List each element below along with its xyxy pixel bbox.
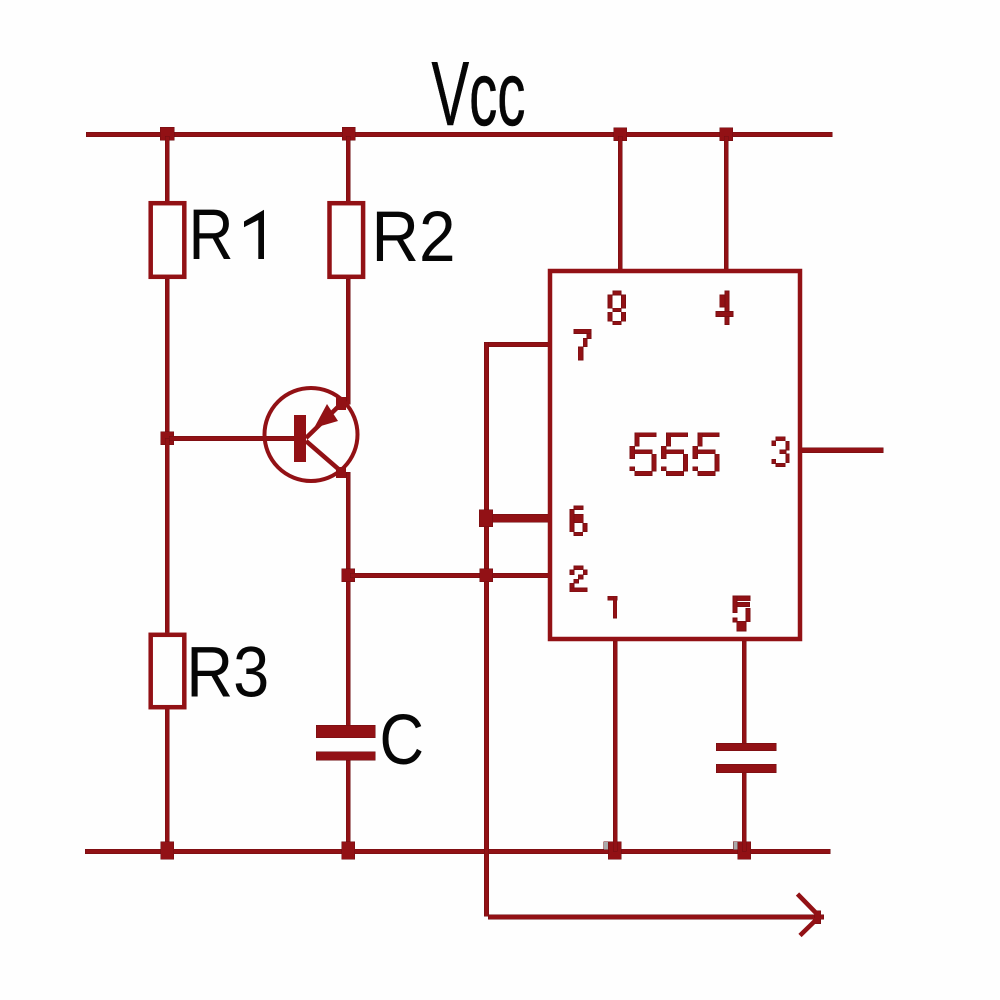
transistor Q1 emitter connection block [336,397,346,410]
pin number 7 [574,329,591,360]
wire R3 to ground rail [165,709,169,851]
svg-text:C: C [380,701,425,780]
node junction ground pin1 [608,842,621,860]
wire pin8 to Vcc [618,136,622,269]
capacitor C bottom plate [316,752,375,761]
label 555 digit 2 [661,433,688,476]
wire gray artifact pin1 [604,842,609,850]
pin number 2 [570,566,587,592]
wire pin7 stub [484,342,549,347]
wire pin2 [350,573,548,578]
wire R1 to node A [165,279,169,438]
transistor Q1 emitter line [306,402,343,438]
arrow head chevrons [798,894,820,936]
capacitor C top plate [316,725,375,738]
wire pin1 to ground [613,641,617,851]
wire output run to arrow [488,915,818,920]
wire pin6 thick bar [488,514,550,522]
label 555 digit 1 [630,433,657,476]
wire Vcc to R2 [346,136,350,201]
node junction ground R3 [161,842,174,860]
node junction top rail pin8 [614,128,627,141]
wire vertical trigger line [484,342,489,916]
wire C to ground rail [346,760,350,851]
pin number 4 [716,291,733,325]
wire Vcc to R1 [165,136,169,201]
node junction ground pin5 [738,842,751,860]
node A junction (R1/R3/base) [161,432,174,445]
wire Vcc top rail [86,132,832,137]
pin number 6 [570,506,587,536]
node junction top rail R2 [342,127,355,140]
svg-text:Vcc: Vcc [432,44,526,145]
op-amp U1 555 IC box [550,271,800,639]
wire pin5 to capacitor [742,641,746,743]
svg-text:R: R [189,196,234,275]
wire gray artifact pin5 [733,842,738,850]
capacitor C2 bottom plate [716,764,776,773]
resistor R2 [330,203,364,277]
transistor Q1 base bar [294,415,306,462]
node junction top rail R1 [160,127,174,140]
wire R2 to transistor emitter [346,279,350,404]
label 555 digit 3 [693,433,720,476]
wire pin3 output [801,448,883,453]
node junction top rail pin4 [720,128,733,141]
pin number 8 [608,291,626,325]
transistor Q1 circle [265,388,358,481]
capacitor C2 top plate [716,743,776,751]
node B junction (pin2 wire / C) [342,569,355,582]
wire base node A to Q1 [169,436,294,441]
node junction pin2 on vertical line [480,569,493,582]
resistor R3 [151,635,185,707]
wire capacitor C2 to ground [742,772,746,851]
arrow head tip block [815,911,821,924]
wire ground bottom rail [85,849,830,854]
wire node A to R3 [165,438,169,632]
pin number 3 [772,437,789,467]
node junction pin6 on vertical line [479,510,493,527]
pin number 1 [608,596,617,618]
svg-text:R3: R3 [186,634,269,713]
pin number 5 [733,596,750,631]
svg-text:R2: R2 [372,198,456,277]
wire transistor collector to node B [346,472,350,725]
resistor R1 [151,203,185,277]
node junction ground C [342,842,355,860]
transistor Q1 collector line [306,441,343,473]
transistor Q1 emitter arrow [314,404,338,428]
transistor Q1 collector connection block [336,467,346,478]
wire pin4 to Vcc [724,136,728,269]
